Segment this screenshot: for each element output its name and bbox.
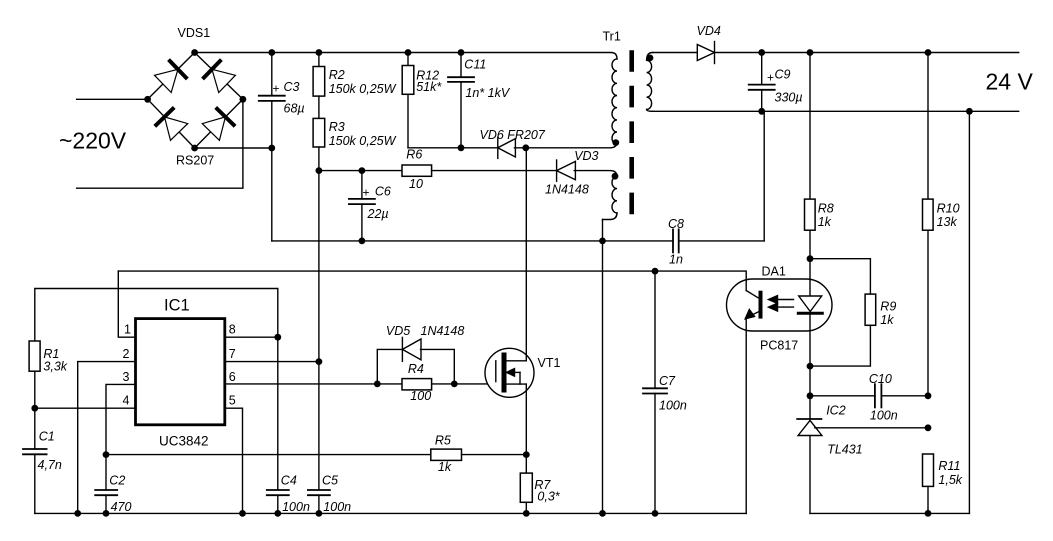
node C10 left junction xyxy=(807,392,814,399)
svg-text:+: + xyxy=(767,71,774,85)
wire right return drop xyxy=(968,111,970,513)
resistor R8 xyxy=(805,53,816,259)
label R4 xyxy=(408,362,424,376)
diode VD6 xyxy=(498,137,617,158)
node C3 top xyxy=(268,49,275,56)
svg-text:R2: R2 xyxy=(329,68,345,82)
pin 6 stub xyxy=(225,383,496,385)
wire Vcc drop to C5 xyxy=(318,171,320,490)
wire R6 to VD3 xyxy=(432,170,557,172)
capacitor C6 xyxy=(349,171,375,241)
label R2 xyxy=(329,68,345,82)
wire aux winding return xyxy=(602,220,604,514)
diode bridge arm D2 (right to top) xyxy=(204,61,236,93)
label C5 value xyxy=(323,500,351,514)
node C9 top xyxy=(758,49,765,56)
node secondary phase dot xyxy=(647,55,654,62)
label C7 xyxy=(659,374,676,388)
label C6 value xyxy=(367,207,389,221)
svg-text:100n: 100n xyxy=(659,399,687,413)
label C2 value xyxy=(111,500,132,514)
node pin 4 junction xyxy=(31,405,38,412)
svg-text:150k 0,25W: 150k 0,25W xyxy=(329,82,397,96)
label ~220V xyxy=(59,128,127,154)
node ground pin5 xyxy=(239,510,246,517)
capacitor C8 xyxy=(673,111,764,252)
wire ground rail secondary xyxy=(810,512,969,514)
optocoupler DA1 phototransistor xyxy=(745,291,760,514)
svg-text:VD3: VD3 xyxy=(574,149,598,163)
pin 5 stub xyxy=(225,408,243,513)
svg-text:R3: R3 xyxy=(329,120,345,134)
node R2 top xyxy=(316,49,323,56)
svg-text:4,7n: 4,7n xyxy=(38,458,62,472)
wire VD5 branch right xyxy=(421,349,455,384)
svg-text:100n: 100n xyxy=(870,409,898,423)
node C3 at bridge line xyxy=(268,145,275,152)
svg-text:470: 470 xyxy=(111,500,132,514)
svg-text:100n: 100n xyxy=(282,500,310,514)
capacitor C2 xyxy=(95,455,117,514)
label C6 xyxy=(375,185,391,199)
node led cathode R9 junction xyxy=(807,363,814,370)
svg-text:VT1: VT1 xyxy=(538,356,561,370)
label RS207 xyxy=(176,154,214,168)
svg-text:3: 3 xyxy=(123,370,130,384)
svg-text:0,3*: 0,3* xyxy=(537,490,560,504)
transformer Tr1 core xyxy=(629,53,634,213)
node R10 top xyxy=(925,49,932,56)
node ref junction xyxy=(925,424,932,431)
label C4 xyxy=(281,474,297,488)
label TL431 xyxy=(827,443,862,457)
node ground C2 xyxy=(103,510,110,517)
pin 7 stub xyxy=(225,361,319,363)
capacitor C3 xyxy=(259,53,285,241)
svg-text:8: 8 xyxy=(229,323,236,337)
resistor R6 xyxy=(402,165,432,176)
optocoupler DA1 body xyxy=(727,279,833,331)
label pin 1 xyxy=(124,323,131,337)
svg-text:68µ: 68µ xyxy=(284,102,305,116)
svg-text:TL431: TL431 xyxy=(827,443,862,457)
svg-text:C5: C5 xyxy=(322,474,338,488)
wire R5 line xyxy=(106,454,431,456)
node COMP C7 junction xyxy=(652,268,659,275)
svg-text:10: 10 xyxy=(409,177,423,191)
node ground C4 xyxy=(274,510,281,517)
pin 3 stub xyxy=(106,384,136,454)
wire bridge bottom to C3 xyxy=(195,147,272,149)
node pin 7 junction xyxy=(316,358,323,365)
label VDS1 xyxy=(178,26,211,40)
svg-text:DA1: DA1 xyxy=(762,265,786,279)
svg-text:C8: C8 xyxy=(668,217,684,231)
node C9 bottom xyxy=(758,108,765,115)
label C8 value xyxy=(669,253,683,267)
node right return junction xyxy=(966,108,973,115)
node ground pin2 xyxy=(74,510,81,517)
label R1 xyxy=(43,347,59,361)
node C10 right junction xyxy=(925,392,932,399)
label C9 value xyxy=(775,91,803,105)
label IC1 xyxy=(164,297,190,315)
label R5 xyxy=(435,434,451,448)
wire primary ground line xyxy=(272,240,673,242)
label R3 value xyxy=(329,134,397,148)
svg-text:1: 1 xyxy=(124,323,131,337)
label C3 xyxy=(284,80,300,94)
label C5 xyxy=(322,474,338,488)
svg-text:1N4148: 1N4148 xyxy=(421,324,465,338)
svg-text:C10: C10 xyxy=(869,372,892,386)
label R10 value xyxy=(937,215,958,229)
bridge rectifier VDS1 frame xyxy=(148,53,243,149)
label R8 value xyxy=(818,215,832,229)
wire ground rail primary xyxy=(35,512,746,514)
label C9 plus xyxy=(767,71,774,85)
node C11 bottom junction xyxy=(458,144,465,151)
label C6 plus xyxy=(363,186,370,200)
node R12 top xyxy=(405,49,412,56)
label R3 xyxy=(329,120,345,134)
label IC2 xyxy=(826,404,846,418)
label VD3 xyxy=(574,149,598,163)
label R6 value xyxy=(409,177,423,191)
label pin 2 xyxy=(123,347,130,361)
label C7 value xyxy=(659,399,687,413)
svg-text:~220V: ~220V xyxy=(59,128,127,154)
svg-text:1n: 1n xyxy=(669,253,683,267)
svg-text:C2: C2 xyxy=(109,474,125,488)
pin 8 stub xyxy=(225,336,278,338)
node ground R7 xyxy=(523,510,530,517)
node bridge corners xyxy=(144,49,246,151)
diode bridge arm D3 (bottom to left) xyxy=(156,109,188,141)
label pin 6 xyxy=(229,370,236,384)
svg-text:R4: R4 xyxy=(408,362,424,376)
svg-text:22µ: 22µ xyxy=(367,207,389,221)
label R12 xyxy=(416,69,439,83)
wire output return rail xyxy=(653,110,1019,112)
svg-text:C1: C1 xyxy=(39,430,55,444)
label R12 value xyxy=(416,80,442,94)
label R10 xyxy=(937,202,960,216)
wire R9 bottom link xyxy=(810,325,870,366)
resistor R2 xyxy=(313,53,325,97)
label C8 xyxy=(668,217,684,231)
label VD5 value xyxy=(421,324,465,338)
svg-text:1n* 1kV: 1n* 1kV xyxy=(465,86,510,100)
label pin 3 xyxy=(123,370,130,384)
svg-text:IC2: IC2 xyxy=(826,404,846,418)
svg-text:VD5: VD5 xyxy=(386,324,410,338)
svg-text:330µ: 330µ xyxy=(775,91,803,105)
wire VD5 branch left xyxy=(377,349,402,384)
resistor R1 xyxy=(29,341,40,408)
wire AC input top xyxy=(77,98,148,100)
wire Vcc rectifier line xyxy=(319,170,402,172)
pin 1 stub xyxy=(118,271,135,337)
label C1 xyxy=(39,430,55,444)
label C4 value xyxy=(282,500,310,514)
label pin 7 xyxy=(229,347,236,361)
wire TL431 ref xyxy=(815,427,928,429)
svg-text:R8: R8 xyxy=(818,202,834,216)
capacitor C11 xyxy=(448,53,474,148)
svg-text:UC3842: UC3842 xyxy=(159,434,209,449)
label C11 value xyxy=(465,86,510,100)
diode DA1 led xyxy=(798,259,822,419)
svg-text:RS207: RS207 xyxy=(176,154,214,168)
wire Vref line to R1 xyxy=(35,289,278,342)
label R6 xyxy=(406,148,422,162)
capacitor C4 xyxy=(267,490,289,513)
label R9 xyxy=(880,300,896,314)
capacitor C5 xyxy=(308,490,330,513)
svg-text:VD6 FR207: VD6 FR207 xyxy=(480,128,546,142)
node pin 8 junction xyxy=(274,334,281,341)
svg-text:R11: R11 xyxy=(938,459,960,473)
svg-text:1N4148: 1N4148 xyxy=(545,183,589,197)
label C2 xyxy=(109,474,125,488)
svg-text:R9: R9 xyxy=(880,300,896,314)
label C3 value xyxy=(284,102,305,116)
svg-text:13k: 13k xyxy=(937,215,958,229)
label VD3 value xyxy=(545,183,589,197)
diode VD5 xyxy=(402,337,421,361)
svg-text:+: + xyxy=(273,82,280,96)
node aux phase dot xyxy=(612,173,619,180)
label C9 xyxy=(775,68,791,82)
svg-text:C6: C6 xyxy=(375,185,391,199)
label C10 xyxy=(869,372,892,386)
svg-text:R5: R5 xyxy=(435,434,451,448)
diode bridge arm D1 (left to top) xyxy=(154,61,186,93)
transformer Tr1 secondary winding xyxy=(647,53,653,112)
resistor R9 xyxy=(865,294,876,325)
svg-text:VDS1: VDS1 xyxy=(178,26,211,40)
svg-text:4: 4 xyxy=(123,394,130,408)
label 24 V xyxy=(986,69,1034,95)
transformer Tr1 aux winding xyxy=(603,176,618,219)
wire AC input bottom xyxy=(77,99,243,188)
diode VD4 xyxy=(697,42,714,64)
svg-text:51k*: 51k* xyxy=(416,80,442,94)
svg-text:VD4: VD4 xyxy=(697,24,721,38)
label R1 value xyxy=(43,360,67,374)
wire VT1 drain xyxy=(525,148,527,361)
svg-text:R6: R6 xyxy=(406,148,422,162)
node C6 bottom junction xyxy=(359,238,366,245)
transistor VT1 xyxy=(485,348,534,397)
resistor R5 xyxy=(431,449,527,460)
svg-text:PC817: PC817 xyxy=(760,339,798,353)
node C11 top xyxy=(458,49,465,56)
label R7 xyxy=(534,478,551,492)
node source R5 junction xyxy=(523,451,530,458)
label R8 xyxy=(818,202,834,216)
label R9 value xyxy=(880,313,894,327)
node gate drive right junction xyxy=(451,381,458,388)
node pin3 R5 junction xyxy=(103,451,110,458)
pin 4 stub xyxy=(35,407,136,409)
svg-text:C4: C4 xyxy=(281,474,297,488)
label R2 value xyxy=(329,82,397,96)
capacitor C1 xyxy=(23,408,47,513)
svg-text:24 V: 24 V xyxy=(986,69,1034,95)
resistor R11 xyxy=(923,454,934,513)
svg-text:1k: 1k xyxy=(818,215,832,229)
wire Vref drop to C4 xyxy=(277,337,279,490)
op-amp controller IC1 box xyxy=(136,319,225,425)
svg-text:C11: C11 xyxy=(464,58,486,72)
optocoupler DA1 led arrows xyxy=(769,296,794,311)
svg-text:C7: C7 xyxy=(659,374,676,388)
label R4 value xyxy=(410,389,431,403)
node VD6 anode junction xyxy=(522,144,529,151)
node ground C5 xyxy=(316,510,323,517)
svg-text:6: 6 xyxy=(229,370,236,384)
svg-text:150k 0,25W: 150k 0,25W xyxy=(329,134,397,148)
shunt regulator IC2 TL431 xyxy=(797,419,822,513)
label C10 value xyxy=(870,409,898,423)
wire +24V rail xyxy=(715,52,1019,54)
resistor R7 xyxy=(520,455,532,514)
svg-text:C3: C3 xyxy=(284,80,300,94)
pin 2 stub xyxy=(78,362,136,514)
svg-text:R10: R10 xyxy=(937,202,960,216)
node C6 top junction xyxy=(359,167,366,174)
svg-text:IC1: IC1 xyxy=(164,297,190,315)
label C3 plus xyxy=(273,82,280,96)
svg-text:1k: 1k xyxy=(438,460,452,474)
label R11 xyxy=(938,459,960,473)
svg-text:+: + xyxy=(363,186,370,200)
node gate drive left junction xyxy=(374,381,381,388)
wire secondary top to VD4 xyxy=(653,52,698,54)
node led top junction xyxy=(807,255,814,262)
resistor R12 xyxy=(402,53,414,148)
diode bridge arm D4 (bottom to right) xyxy=(202,109,234,141)
label C11 xyxy=(464,58,486,72)
node aux return junction xyxy=(599,238,606,245)
node ground R11 xyxy=(925,510,932,517)
node ground aux xyxy=(599,510,606,517)
label C1 value xyxy=(38,458,62,472)
resistor R4 xyxy=(402,379,432,390)
svg-text:2: 2 xyxy=(123,347,130,361)
node ground C7 xyxy=(652,510,659,517)
node R8 top xyxy=(807,49,814,56)
wire top rail (rectified +) xyxy=(195,53,617,59)
svg-text:5: 5 xyxy=(229,394,236,408)
node primary phase dot xyxy=(612,139,619,146)
label Tr1 xyxy=(603,30,621,44)
label R7 value xyxy=(537,490,560,504)
label VD6 xyxy=(480,128,546,142)
wire COMP line pin1 xyxy=(118,271,746,290)
svg-text:1,5k: 1,5k xyxy=(938,473,962,487)
label R5 value xyxy=(438,460,452,474)
label VD4 xyxy=(697,24,721,38)
label DA1 xyxy=(762,265,786,279)
wire R9 top link xyxy=(810,259,870,294)
capacitor C7 xyxy=(643,271,667,513)
label PC817 xyxy=(760,339,798,353)
svg-text:C9: C9 xyxy=(775,68,791,82)
capacitor C10 xyxy=(810,384,928,407)
svg-text:Tr1: Tr1 xyxy=(603,30,621,44)
label UC3842 xyxy=(159,434,209,449)
wire VT1 source xyxy=(525,384,527,455)
svg-text:100: 100 xyxy=(410,389,431,403)
capacitor C9 xyxy=(749,53,775,112)
label VT1 xyxy=(538,356,561,370)
label pin 4 xyxy=(123,394,130,408)
transformer Tr1 primary winding xyxy=(612,59,617,144)
svg-text:100n: 100n xyxy=(323,500,351,514)
svg-text:1k: 1k xyxy=(880,313,894,327)
resistor R3 xyxy=(313,118,325,170)
svg-text:3,3k: 3,3k xyxy=(43,360,67,374)
node R3 bottom junction xyxy=(316,167,323,174)
wire snubber bottom xyxy=(408,147,498,149)
resistor R10 xyxy=(923,53,934,396)
svg-text:7: 7 xyxy=(229,347,236,361)
diode VD3 xyxy=(557,160,617,181)
wire R2-R3 xyxy=(318,96,320,118)
label R11 value xyxy=(938,473,962,487)
label pin 5 xyxy=(229,394,236,408)
label VD5 xyxy=(386,324,410,338)
label pin 8 xyxy=(229,323,236,337)
